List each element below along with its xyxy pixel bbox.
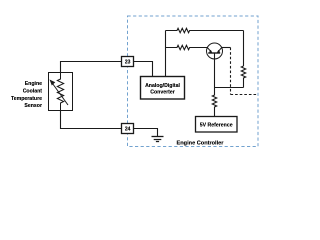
label: Engine Controller [177,140,225,146]
5V reference box [196,117,238,133]
pin 23 [122,57,134,67]
svg-text:Coolant: Coolant [23,89,43,95]
thermistor RT (zigzag) [57,73,63,111]
svg-text:Sensor: Sensor [24,103,42,109]
svg-text:Engine Controller: Engine Controller [177,140,225,146]
svg-text:Analog/Digital: Analog/Digital [145,83,180,89]
svg-text:Temperature: Temperature [11,96,42,102]
svg-text:Engine: Engine [25,81,42,87]
wire: top right down to R2 [243,31,245,67]
dashed wire right [231,94,258,96]
svg-text:5V Reference: 5V Reference [200,123,233,129]
resistor R3 (to 5V reference) [212,88,216,117]
wire: sensor top to pin 23 [61,62,122,73]
pin 24 [122,124,134,134]
wire: pin 24 to ground [134,129,158,137]
ground [152,136,164,138]
label: Engine Coolant Temperature Sensor [25,81,42,87]
resistor R2 (right vertical) [241,66,245,88]
wire: sensor bottom to pin 24 [61,111,122,129]
engine controller dashed enclosure [128,16,259,147]
svg-text:Converter: Converter [150,90,175,96]
wire: left bus to resistors [165,31,167,77]
transistor Q1 [207,43,223,59]
wire: pin 23 to A/D converter [134,62,153,77]
svg-text:23: 23 [125,60,131,66]
svg-text:24: 24 [125,127,131,133]
wire: collector to dashed [222,47,231,49]
wire: emitter node to R2 bottom [215,87,244,89]
dashed wire down [230,48,232,95]
A/D converter box U1 [141,77,185,100]
sensor box [49,73,73,111]
resistor R1 (top) [166,28,244,32]
transistor base lead down [214,53,216,88]
thermistor arrow [53,84,69,106]
resistor R1b (second) [166,45,208,49]
